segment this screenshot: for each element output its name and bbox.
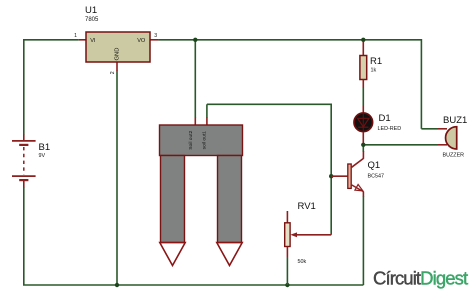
battery B1 bottom lead <box>23 180 25 187</box>
wire collector column <box>362 145 364 152</box>
svg-text:3: 3 <box>154 33 157 39</box>
potentiometer RV1 wiper arrowhead <box>290 232 297 237</box>
battery B1 cell 1 plus plate <box>12 140 36 142</box>
LED D1 cathode bar <box>358 126 368 128</box>
potentiometer RV1 top lead <box>286 211 288 223</box>
wire RV1 bottom to ground rail <box>286 257 288 285</box>
transistor Q1 collector diagonal <box>352 158 364 167</box>
svg-text:CírcuitDigest: CírcuitDigest <box>373 268 468 289</box>
junction node at R1 on top rail <box>361 38 365 42</box>
soil probe right leg <box>218 156 242 243</box>
svg-text:BC547: BC547 <box>368 174 384 180</box>
LED D1 anode lead <box>362 106 364 119</box>
soil probe left tip <box>160 243 185 266</box>
LED D1 cathode lead <box>362 132 364 143</box>
svg-text:2: 2 <box>110 71 116 74</box>
svg-text:GND: GND <box>115 48 121 61</box>
battery B1 dashed link <box>23 147 25 175</box>
svg-text:D1: D1 <box>379 113 391 124</box>
resistor R1 bottom lead <box>362 80 364 89</box>
transistor Q1 collector lead up <box>362 151 364 159</box>
junction node base of Q1 <box>329 174 333 178</box>
buzzer BUZ1 body <box>446 127 457 149</box>
junction node D1 cathode / buzzer <box>361 143 365 147</box>
wire top rail left segment <box>24 39 79 41</box>
wire left rail (battery down to bottom rail) <box>23 187 25 285</box>
buzzer BUZ1 top pin stub <box>438 128 447 130</box>
wire probe to base horizontal run <box>207 103 331 105</box>
wire left rail (top rail down to battery) <box>23 39 25 135</box>
wire base column down to RV1 wiper <box>330 104 332 235</box>
svg-text:BUZ1: BUZ1 <box>443 115 467 126</box>
wire D1 cathode to buzzer bottom pin <box>363 144 438 146</box>
svg-text:50k: 50k <box>298 259 307 265</box>
resistor R1 body <box>360 56 367 80</box>
wire U1 GND pin 2 down to bottom rail <box>116 71 118 286</box>
svg-text:VO: VO <box>137 38 146 44</box>
potentiometer RV1 wiper lead <box>294 234 331 236</box>
battery B1 cell 2 plus plate <box>12 175 36 177</box>
wire probe pin soil-out2 up to top rail <box>194 40 196 118</box>
wire bottom ground rail <box>23 284 363 286</box>
wire buzzer top feed horizontal <box>421 128 438 130</box>
wire top rail right segment (VO to buzzer column) <box>158 39 421 41</box>
soil probe left leg <box>161 156 185 243</box>
svg-text:BUZZER: BUZZER <box>443 153 465 159</box>
svg-text:1: 1 <box>74 33 77 39</box>
junction node RV1 at ground rail <box>285 283 289 287</box>
LED D1 triangle <box>358 118 369 127</box>
svg-text:Q1: Q1 <box>368 160 381 171</box>
LED D1 internal lead <box>362 114 364 132</box>
wire R1 to D1 <box>362 88 364 106</box>
soil probe pin stub soil-out2 <box>194 118 196 126</box>
svg-text:7805: 7805 <box>85 17 99 23</box>
transistor Q1 base lead <box>331 175 347 177</box>
svg-text:U1: U1 <box>85 5 97 16</box>
soil probe right tip <box>217 243 242 266</box>
transistor Q1 emitter lead down <box>362 192 364 197</box>
svg-text:soil out1: soil out1 <box>202 131 208 149</box>
svg-text:VI: VI <box>90 38 96 44</box>
svg-text:1k: 1k <box>371 68 377 74</box>
LED D1 body circle <box>354 113 373 132</box>
soil probe pin stub soil-out1 <box>206 118 208 126</box>
wire emitter column down to bottom rail <box>362 196 364 285</box>
regulator U1 7805 body <box>86 32 150 62</box>
svg-text:LED-RED: LED-RED <box>378 126 402 132</box>
wire buzzer top feed vertical <box>420 39 422 129</box>
potentiometer RV1 body <box>285 223 290 247</box>
svg-text:RV1: RV1 <box>298 201 316 212</box>
regulator U1 pin 1 stub <box>79 39 86 41</box>
junction node at probe wire on top rail <box>193 38 197 42</box>
transistor Q1 emitter diagonal <box>352 185 364 192</box>
soil probe top bar <box>160 125 243 156</box>
svg-text:R1: R1 <box>370 56 382 67</box>
svg-text:9V: 9V <box>39 153 46 159</box>
battery B1 cell 1 minus plate <box>19 144 28 146</box>
battery B1 cell 2 minus plate <box>19 179 28 181</box>
svg-text:Soil out2: Soil out2 <box>188 130 194 149</box>
regulator U1 pin 3 stub <box>150 39 158 41</box>
wire probe pin soil-out1 riser <box>206 104 208 118</box>
resistor R1 top lead <box>362 42 364 56</box>
transistor Q1 bar <box>348 164 351 188</box>
transistor Q1 emitter arrow <box>355 185 363 191</box>
regulator U1 pin 2 stub <box>116 62 118 71</box>
buzzer BUZ1 bottom pin stub <box>438 144 447 146</box>
junction node U1 GND at ground rail <box>115 283 119 287</box>
battery B1 top lead <box>23 135 25 141</box>
potentiometer RV1 bottom lead <box>286 247 288 258</box>
svg-text:B1: B1 <box>39 142 51 153</box>
